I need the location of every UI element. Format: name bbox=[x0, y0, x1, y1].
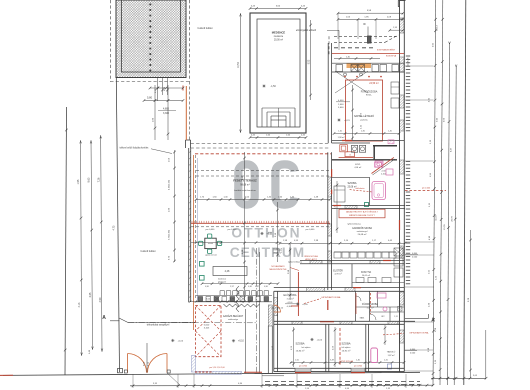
red note gipszkarton fal top bbox=[304, 296, 342, 304]
svg-text:1,10: 1,10 bbox=[338, 131, 342, 133]
svg-text:MEDENCE: MEDENCE bbox=[272, 31, 286, 35]
wing interior dim chain bbox=[351, 85, 362, 140]
svg-text:4,13: 4,13 bbox=[78, 302, 81, 307]
label 1,98 west wall bbox=[272, 345, 274, 350]
svg-text:4,50(2,20): 4,50(2,20) bbox=[169, 180, 171, 190]
middle block west wall bbox=[328, 152, 332, 290]
svg-text:parketta: parketta bbox=[360, 119, 368, 122]
small door blob top bbox=[368, 36, 372, 43]
storage text block bbox=[273, 248, 283, 254]
level labels stack bbox=[336, 100, 350, 109]
small red mark below outbuilding bbox=[182, 86, 184, 91]
svg-text:2,40: 2,40 bbox=[346, 57, 350, 59]
blue hatched threshold bbox=[195, 371, 241, 374]
svg-text:KONYHASZEKRÉNY: KONYHASZEKRÉNY bbox=[377, 48, 396, 51]
garage top dim row bbox=[189, 298, 252, 302]
red note nyilaszaro megszuntetve bbox=[269, 265, 299, 271]
red opening mark hall wall bbox=[353, 287, 361, 289]
dim line y88 below outbuilding bbox=[149, 87, 185, 90]
small dim 1,95 bbox=[389, 27, 405, 31]
svg-text:10,01 m²: 10,01 m² bbox=[362, 274, 371, 277]
driveway insulation zigzag bbox=[224, 304, 260, 307]
garage labels bbox=[204, 315, 244, 330]
insulation dash column bbox=[406, 56, 410, 284]
garden table bbox=[205, 238, 216, 248]
kitchen orange counter highlight bbox=[347, 63, 372, 68]
garage red dashed cross upper bbox=[195, 305, 221, 331]
svg-text:burkolt felület: burkolt felület bbox=[198, 27, 213, 30]
svg-text:2,400: 2,400 bbox=[338, 104, 344, 106]
red label gipsz nyilas bbox=[339, 360, 354, 363]
red infill wall segment bbox=[297, 272, 299, 316]
upper wing east wall bbox=[398, 1, 405, 144]
svg-text:felt ajtória: felt ajtória bbox=[342, 346, 352, 349]
svg-text:41,21 m²: 41,21 m² bbox=[273, 252, 282, 255]
room labels eloter konyha bbox=[333, 269, 371, 277]
pool bottom dims bbox=[249, 134, 308, 139]
gardrob room label bbox=[347, 224, 372, 237]
hatched outbuilding (existing structure to demolish) bbox=[116, 0, 186, 78]
svg-text:TÁROLÓ: TÁROLÓ bbox=[273, 248, 283, 251]
svg-text:ajtó 1,50/2,10: ajtó 1,50/2,10 bbox=[271, 307, 284, 310]
level cross +0,00 bbox=[310, 338, 322, 342]
top dim line row 1 bbox=[337, 10, 405, 15]
top dim line row 2 bbox=[337, 13, 405, 39]
blue fixture bbox=[388, 364, 392, 369]
middle block east wall bbox=[400, 143, 405, 287]
south block north wall bbox=[274, 288, 404, 292]
watermark Otthon Centrum logo O bbox=[238, 164, 254, 204]
label terburkolat szegellyel bbox=[147, 324, 170, 327]
svg-text:0,500: 0,500 bbox=[412, 256, 418, 258]
outbuilding center dotted axis bbox=[149, 3, 151, 71]
bottom dimension line bbox=[130, 383, 434, 390]
svg-text:korábbi saját bontásra: korábbi saját bontásra bbox=[234, 189, 256, 192]
left dimension chain 3 bbox=[97, 135, 103, 352]
east dim chain 3 bbox=[443, 42, 450, 385]
bedroom partition walls bbox=[326, 287, 405, 372]
label 1,40 near gate bbox=[89, 349, 91, 354]
dashed extension to corner bbox=[189, 82, 191, 141]
kitchen counter band bbox=[332, 63, 404, 76]
dim row y283 bbox=[201, 282, 280, 288]
svg-text:3,600: 3,600 bbox=[338, 107, 344, 109]
svg-text:pm 0,000: pm 0,000 bbox=[228, 229, 238, 231]
east dim chain 1 bbox=[428, 0, 437, 385]
svg-text:20,00 m²: 20,00 m² bbox=[274, 39, 283, 42]
watermark word CENTRUM bbox=[230, 245, 305, 260]
svg-text:pm 0,000: pm 0,000 bbox=[306, 229, 316, 231]
east boundary line bbox=[464, 0, 466, 385]
south exterior wall bbox=[274, 368, 405, 371]
wc red fixtures bbox=[340, 145, 355, 157]
wing level cross bbox=[337, 118, 350, 122]
szoba dim stub bbox=[335, 181, 339, 233]
svg-text:3,105: 3,105 bbox=[204, 328, 210, 330]
red note box ablak helyett ajto bbox=[339, 209, 385, 218]
room label furdoszoba kozl bbox=[361, 90, 378, 96]
bathroom partitions bbox=[356, 291, 405, 321]
svg-text:3,05: 3,05 bbox=[89, 292, 92, 297]
svg-text:0,90: 0,90 bbox=[205, 286, 209, 288]
konyha counter bbox=[352, 278, 404, 283]
gate leader line bbox=[167, 373, 180, 385]
svg-text:3,70(1,90): 3,70(1,90) bbox=[169, 230, 171, 240]
red dots under counter bbox=[344, 76, 382, 78]
canopy dashed outline bbox=[329, 35, 398, 55]
svg-text:7,26: 7,26 bbox=[97, 177, 100, 182]
pool steps bbox=[262, 108, 295, 127]
svg-text:4,04 m²: 4,04 m² bbox=[354, 166, 361, 169]
red opening west wall 2 bbox=[331, 190, 333, 195]
svg-text:1,45: 1,45 bbox=[388, 131, 392, 133]
machine room labels bbox=[218, 279, 227, 284]
svg-text:9,52: 9,52 bbox=[308, 59, 310, 64]
svg-text:ÜRES NYÍLÁS: ÜRES NYÍLÁS bbox=[304, 255, 318, 258]
svg-text:1,50: 1,50 bbox=[295, 359, 299, 361]
room label szoba bbox=[347, 181, 356, 189]
svg-text:4,73: 4,73 bbox=[112, 225, 115, 230]
level labels east 2 bbox=[404, 349, 417, 355]
bottom extension ticks bbox=[133, 374, 406, 388]
label burkolt felulet left bbox=[141, 250, 156, 253]
svg-text:NYÍLÁSZÁRÓ: NYÍLÁSZÁRÓ bbox=[271, 265, 285, 268]
svg-text:2,97: 2,97 bbox=[230, 286, 234, 288]
svg-text:-1,50: -1,50 bbox=[271, 86, 277, 88]
svg-text:ELŐTÉR: ELŐTÉR bbox=[333, 269, 343, 272]
rotated dim labels column x170 bbox=[169, 150, 176, 262]
svg-text:MEGSZÜNTETVE: MEGSZÜNTETVE bbox=[269, 268, 287, 271]
door label bbox=[271, 307, 284, 310]
svg-text:28,78: 28,78 bbox=[451, 215, 453, 221]
gate center line bbox=[144, 343, 150, 373]
pool inner wall bbox=[257, 19, 300, 127]
east dim chain 4 bbox=[451, 65, 458, 385]
red new partition rectangle nappali bbox=[346, 80, 383, 141]
left property boundary line bbox=[64, 107, 68, 375]
red opening mark gardrob wall bbox=[383, 260, 391, 262]
svg-text:SZOBA: SZOBA bbox=[341, 342, 350, 346]
wall between gardrob and konyha bbox=[300, 261, 404, 264]
cross +0,00 driveway bbox=[171, 339, 184, 343]
fence bottom step bbox=[118, 369, 123, 373]
svg-text:0,500: 0,500 bbox=[410, 352, 416, 354]
south site boundary line bbox=[3, 372, 420, 375]
svg-text:ID: ID bbox=[363, 22, 366, 26]
svg-text:+0,00: +0,00 bbox=[317, 340, 323, 342]
bedroom interior dim stubs bbox=[291, 325, 386, 367]
pm 0,000 labels bbox=[206, 229, 316, 231]
label elmozgatott eloteto bbox=[296, 29, 339, 50]
long red dashed demolition line bbox=[195, 153, 331, 155]
svg-text:10,52: 10,52 bbox=[238, 61, 240, 67]
kitchen red line row bbox=[332, 54, 404, 60]
level cross +0,05 bbox=[296, 302, 308, 306]
bottom double dashed line bbox=[265, 382, 420, 385]
terrace dim line bbox=[195, 196, 332, 200]
gate posts bbox=[124, 370, 170, 373]
svg-text:GIPSZKARTON FAL: GIPSZKARTON FAL bbox=[409, 331, 429, 334]
svg-text:0,90: 0,90 bbox=[264, 286, 268, 288]
east dim chain 2 bbox=[435, 0, 444, 385]
red opening mark east wall vertical bbox=[399, 220, 401, 230]
szoba label 1 bbox=[295, 342, 311, 353]
svg-text:24,08 m²: 24,08 m² bbox=[358, 233, 367, 236]
svg-text:1,87 m²: 1,87 m² bbox=[388, 354, 395, 357]
red dashed level line east bbox=[405, 187, 446, 190]
svg-text:13,84 m²: 13,84 m² bbox=[296, 349, 305, 352]
svg-text:térburkolat szegéllyel: térburkolat szegéllyel bbox=[147, 324, 170, 327]
svg-text:FÜRDŐSZOBA: FÜRDŐSZOBA bbox=[361, 90, 378, 93]
terrace faint blue line bbox=[196, 158, 198, 300]
pool outer wall bbox=[250, 13, 306, 133]
svg-text:gépészet: gépészet bbox=[218, 281, 227, 284]
svg-text:FEDETT TERASZ: FEDETT TERASZ bbox=[233, 179, 257, 183]
svg-text:+0,00: +0,00 bbox=[178, 341, 184, 343]
section marker A left bbox=[102, 315, 119, 321]
level cross +0,10 bbox=[232, 339, 245, 343]
fence line (telken beluli kerites) bbox=[116, 78, 195, 373]
svg-text:2,35: 2,35 bbox=[361, 131, 365, 133]
svg-text:+0,21: +0,21 bbox=[267, 233, 274, 235]
small bath room labels bbox=[387, 351, 396, 357]
south block west wall bbox=[274, 291, 278, 371]
rotated label east of wall bbox=[408, 57, 410, 67]
svg-text:ELBONTVA: ELBONTVA bbox=[386, 55, 397, 58]
svg-text:TÁROLÓ: TÁROLÓ bbox=[387, 351, 396, 354]
red gipszkarton partition bedroom bbox=[339, 328, 341, 366]
svg-text:pm 0,900: pm 0,900 bbox=[354, 365, 362, 367]
svg-text:3,49: 3,49 bbox=[330, 359, 334, 361]
svg-text:98,06 m²: 98,06 m² bbox=[240, 183, 250, 186]
svg-text:szekrénnyel: szekrénnyel bbox=[357, 231, 368, 233]
kozl labels bbox=[354, 163, 386, 175]
svg-text:pm 0,000: pm 0,000 bbox=[206, 229, 216, 231]
left dimension chain 1 bbox=[77, 140, 82, 356]
window 2 in south wall bbox=[351, 365, 365, 372]
svg-text:KAM.: KAM. bbox=[360, 317, 365, 320]
coat hooks row bbox=[220, 291, 269, 296]
svg-text:NAPPALI+ÉTKEZŐ: NAPPALI+ÉTKEZŐ bbox=[354, 115, 374, 118]
red opening mark szoba wall bbox=[333, 205, 341, 207]
svg-text:0,30: 0,30 bbox=[248, 286, 252, 288]
svg-text:lett ajtória: lett ajtória bbox=[302, 346, 312, 349]
watermark word OTTHON bbox=[231, 226, 301, 241]
garden chairs green bbox=[199, 234, 222, 254]
pool level mark bbox=[262, 84, 276, 88]
section dashdot continuation bbox=[128, 322, 256, 324]
konyha wall furniture bbox=[394, 248, 403, 277]
terrace west wall bbox=[189, 148, 191, 302]
pink bathtub bbox=[372, 182, 386, 200]
terrace vertical dim x277 bbox=[275, 202, 279, 262]
svg-text:15,55: 15,55 bbox=[444, 223, 446, 229]
svg-text:pm 1,50 1,50 2,00: pm 1,50 1,50 2,00 bbox=[209, 367, 224, 369]
svg-text:4,78 m²: 4,78 m² bbox=[334, 273, 341, 276]
label gabio vercio bbox=[205, 254, 217, 257]
label ID mark bbox=[363, 22, 368, 44]
left dimension chain 2 bbox=[88, 140, 94, 350]
red opening mark north wall bbox=[342, 140, 352, 142]
wall under szoba bbox=[332, 206, 405, 209]
svg-text:SZOBA: SZOBA bbox=[347, 181, 356, 185]
red door frame marks hall bbox=[291, 306, 334, 322]
pink bathtub south bbox=[371, 348, 378, 363]
pool label MEDENCE bbox=[272, 31, 286, 42]
svg-text:gabio verció: gabio verció bbox=[205, 254, 217, 257]
svg-text:előfalazás: előfalazás bbox=[355, 188, 364, 190]
upper wing west wall bbox=[328, 43, 331, 143]
svg-text:+0,10: +0,10 bbox=[238, 341, 245, 343]
svg-text:4,48: 4,48 bbox=[225, 270, 230, 273]
terrace roof dashed edges bbox=[196, 171, 330, 177]
main block northwest corner wall bbox=[186, 140, 191, 148]
svg-text:medence: medence bbox=[218, 279, 227, 281]
interior partition wall bbox=[332, 177, 370, 205]
svg-text:1,98 m²: 1,98 m² bbox=[338, 136, 345, 139]
svg-text:telken belüli folyóka kerítés: telken belüli folyóka kerítés bbox=[120, 146, 150, 149]
red boundary mark bottom-left bbox=[0, 374, 13, 376]
outbuilding dashed offset outline bbox=[110, 0, 189, 82]
dim chain left of house x168 bbox=[167, 85, 170, 140]
svg-text:CENTRUM: CENTRUM bbox=[230, 245, 305, 260]
eloszoba label bbox=[284, 294, 297, 300]
wing interior dim row bbox=[333, 131, 401, 135]
svg-text:GARDRÓB SZOBA: GARDRÓB SZOBA bbox=[352, 227, 373, 230]
double gate right leaf bbox=[148, 354, 168, 373]
terrace counter row bbox=[196, 296, 272, 302]
svg-text:ABLAK HELYETT AJTÓ KÉSZÜLT: ABLAK HELYETT AJTÓ KÉSZÜLT bbox=[346, 211, 378, 214]
blue hatched jamb bbox=[192, 355, 196, 372]
svg-text:2,25: 2,25 bbox=[384, 359, 388, 361]
terrace orange edge line bbox=[193, 155, 195, 330]
svg-text:11,23: 11,23 bbox=[436, 215, 438, 221]
svg-text:MÉRETE MEGVÁLTOZOTT: MÉRETE MEGVÁLTOZOTT bbox=[349, 214, 375, 217]
gardrob wardrobe row bbox=[334, 252, 396, 258]
pool right dim chain bbox=[308, 20, 312, 100]
driveway edge lines bbox=[246, 252, 260, 373]
svg-text:1,31: 1,31 bbox=[394, 316, 398, 318]
furdoszoba labels bbox=[362, 303, 378, 309]
pink wc fixtures north bbox=[375, 161, 393, 175]
red opening mark west wall vertical bbox=[331, 169, 333, 177]
dashed line under railing bbox=[191, 226, 330, 228]
svg-text:0,87: 0,87 bbox=[255, 286, 259, 288]
terrace bench 4,48 bbox=[213, 267, 247, 276]
interior dim row above south wall bbox=[290, 359, 406, 363]
entry steps bbox=[262, 374, 284, 376]
svg-text:pm 0,900: pm 0,900 bbox=[299, 365, 307, 367]
vertical dim x290 bbox=[288, 244, 292, 300]
vertical insulation zigzag bbox=[236, 286, 239, 312]
red note ures nyilas bbox=[304, 255, 318, 261]
svg-text:elmozgatott előtető: elmozgatott előtető bbox=[296, 29, 317, 32]
svg-text:KÖZL.: KÖZL. bbox=[366, 94, 373, 97]
svg-text:19,13: 19,13 bbox=[437, 24, 439, 30]
outbuilding lower dim stubs bbox=[155, 78, 169, 102]
hatched pier wall bbox=[268, 305, 272, 373]
orange door swing bbox=[274, 305, 281, 312]
svg-text:13,91 m²: 13,91 m² bbox=[342, 349, 351, 352]
red railing line with ticks bbox=[191, 221, 330, 223]
svg-text:+0,05: +0,05 bbox=[302, 304, 308, 306]
svg-text:GIPSZKARTON FAL: GIPSZKARTON FAL bbox=[321, 296, 341, 299]
szoba furniture bbox=[334, 186, 345, 202]
partition stub bbox=[351, 264, 353, 287]
svg-text:5,80: 5,80 bbox=[147, 95, 153, 99]
szoba label 2 bbox=[341, 342, 351, 353]
label 4,73 on fence bbox=[112, 225, 115, 230]
svg-text:KÖZL: KÖZL bbox=[355, 163, 361, 166]
svg-text:5,000: 5,000 bbox=[204, 324, 210, 326]
pool left dim chain bbox=[238, 13, 241, 133]
svg-text:SZOBA: SZOBA bbox=[295, 342, 304, 346]
axis dash-dot line bbox=[256, 248, 258, 373]
terrace label FEDETT TERASZ bbox=[233, 179, 257, 193]
kitchen red annotation dashes bbox=[334, 48, 396, 52]
north wall of middle block with hatch bbox=[332, 136, 404, 144]
svg-text:KONYHA: KONYHA bbox=[361, 271, 372, 274]
red note gipszkarton fal east bbox=[383, 331, 430, 335]
nappali room labels bbox=[354, 115, 374, 122]
green planters bbox=[200, 262, 205, 281]
svg-text:1,95: 1,95 bbox=[77, 179, 80, 184]
east faint line bbox=[485, 330, 487, 378]
note nyilas befalazva bbox=[288, 262, 303, 264]
svg-text:nyílás befalazva: nyílás befalazva bbox=[347, 224, 362, 226]
east bottom dim line bbox=[431, 375, 487, 379]
orange wall line from outbuilding bbox=[185, 86, 187, 140]
east wall window hatches bbox=[400, 18, 404, 131]
svg-text:24,59 m²: 24,59 m² bbox=[369, 82, 379, 85]
svg-text:burkolt felület: burkolt felület bbox=[141, 250, 156, 253]
watermark Otthon Centrum logo C bbox=[275, 164, 294, 204]
red opening mark terrace wall vertical bbox=[327, 300, 329, 310]
svg-text:+4,23: +4,23 bbox=[344, 120, 350, 122]
wing furniture along east bbox=[391, 82, 399, 108]
level cross +0,21 bbox=[260, 232, 273, 236]
svg-text:1,40: 1,40 bbox=[356, 359, 360, 361]
green fixture bbox=[365, 203, 369, 207]
svg-text:A: A bbox=[102, 315, 106, 321]
dim chain left of house x155 bbox=[152, 85, 156, 140]
svg-text:nyílás befalazva: nyílás befalazva bbox=[288, 262, 303, 264]
red diagonal leader elofalazas bbox=[350, 188, 372, 192]
red partition bathroom bbox=[356, 293, 371, 314]
wc black sinks bbox=[351, 145, 365, 152]
east extension lines bbox=[405, 66, 434, 371]
svg-text:8,63: 8,63 bbox=[88, 177, 91, 182]
svg-text:7,27 m²: 7,27 m² bbox=[286, 298, 293, 301]
terrace center dim chain bbox=[242, 152, 246, 300]
red marks along bottom bbox=[195, 367, 262, 372]
living room cross diagonals bbox=[335, 71, 368, 93]
level labels 4,800 3,300 bbox=[158, 108, 176, 115]
svg-text:medence: medence bbox=[274, 36, 284, 38]
svg-text:4,800: 4,800 bbox=[163, 108, 170, 111]
terrace north dashed lines bbox=[191, 144, 331, 149]
svg-text:pm 0,000: pm 0,000 bbox=[422, 187, 431, 189]
double gate left leaf bbox=[128, 354, 147, 373]
pool top dim line bbox=[249, 5, 308, 10]
long south interior wall bbox=[274, 321, 415, 324]
section marker A right bbox=[405, 314, 435, 324]
red line above stair wall bbox=[339, 157, 373, 159]
svg-text:pm 05,18: pm 05,18 bbox=[408, 57, 410, 67]
pink fixtures bathroom bbox=[377, 293, 387, 311]
east short chain bbox=[468, 230, 472, 378]
svg-text:ELŐSZOBA: ELŐSZOBA bbox=[284, 294, 297, 297]
